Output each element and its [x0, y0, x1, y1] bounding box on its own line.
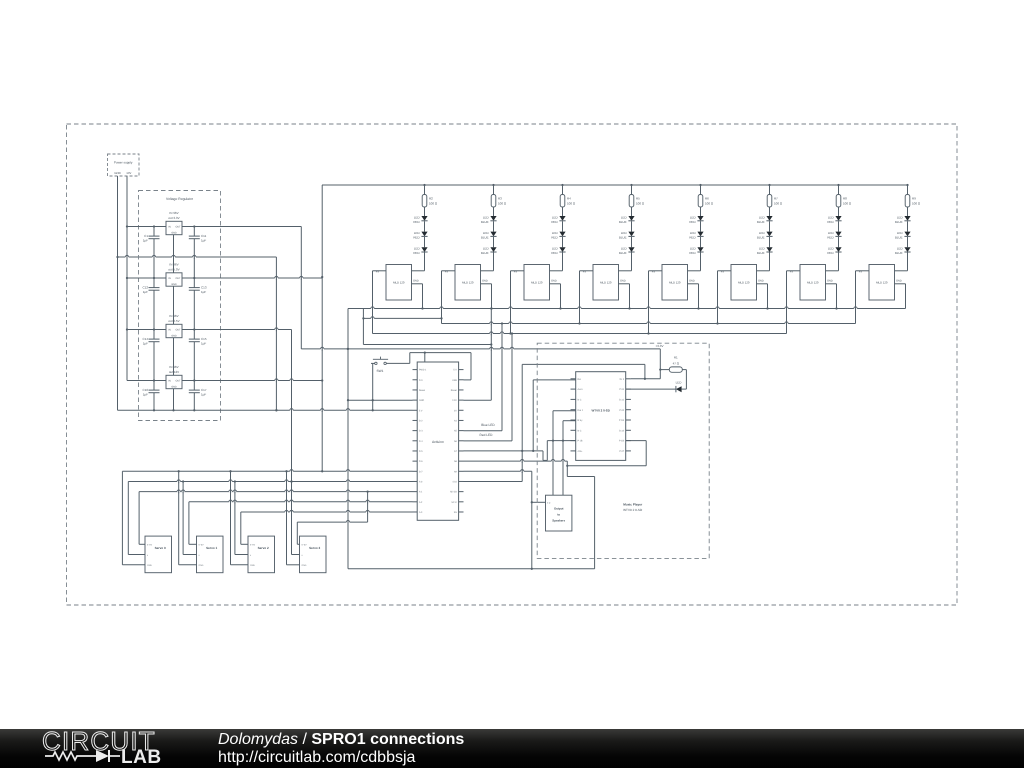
resistor R2 [423, 184, 425, 186]
svg-text:Dat 1: Dat 1 [578, 409, 584, 412]
wire GND from power supply [117, 176, 119, 410]
svg-text:C16: C16 [142, 388, 148, 392]
wire servo 3 pin3 [286, 471, 288, 565]
svg-text:+3.3V: +3.3V [656, 344, 664, 348]
wire GND driver 2 [550, 283, 561, 285]
servo bus 12V [122, 470, 412, 472]
svg-text:2V: 2V [454, 409, 457, 412]
svg-text:100 Ω: 100 Ω [912, 202, 921, 206]
wire Px driver 1 [442, 270, 456, 272]
svg-text:100 Ω: 100 Ω [705, 202, 714, 206]
LED BLUE D12 [628, 247, 634, 252]
wire regulator U3 input [127, 277, 166, 279]
wire blue control drop [501, 324, 503, 431]
svg-text:GND: GND [171, 231, 177, 234]
wire Px driver 4 [649, 270, 663, 272]
svg-text:GND: GND [896, 279, 902, 282]
wire WTV busy loop [626, 440, 647, 442]
wire output reg3 6.5V [182, 329, 292, 331]
arduino pin row 6 [413, 430, 418, 432]
svg-text:IN: IN [168, 380, 171, 383]
svg-text:GND: GND [551, 279, 557, 282]
svg-text:out 3.3V: out 3.3V [168, 216, 179, 220]
svg-text:100 Ω: 100 Ω [429, 202, 438, 206]
wire jog to arduino D2 [363, 344, 491, 346]
svg-text:IN: IN [168, 329, 171, 332]
driver chip U15 MLD 120 [731, 265, 757, 301]
wire 5V feed to LED rail [321, 185, 323, 471]
svg-text:RED: RED [413, 235, 420, 239]
arduino pin row 3 [413, 399, 418, 401]
resistor R6 [699, 184, 701, 186]
svg-text:SW1: SW1 [377, 369, 384, 373]
arduino pin row 12 [413, 491, 418, 493]
svg-text:Servo 1: Servo 1 [206, 546, 217, 550]
svg-text:USB: USB [452, 379, 457, 382]
svg-text:IN: IN [168, 277, 171, 280]
svg-text:GND: GND [620, 279, 626, 282]
svg-text:C13: C13 [201, 285, 207, 289]
arduino U1 [417, 362, 458, 520]
LED RED D19 [835, 216, 841, 221]
svg-text:4 B+: 4 B+ [578, 450, 583, 453]
svg-text:Speakers: Speakers [552, 519, 565, 523]
wire data 0 braid [464, 450, 544, 452]
driver chip U14 MLD 120 [662, 265, 688, 301]
svg-text:1μF: 1μF [201, 392, 206, 396]
svg-text:BLUE: BLUE [619, 251, 627, 255]
svg-text:R2: R2 [429, 196, 433, 200]
svg-text:1μF: 1μF [201, 290, 206, 294]
svg-text:5–6V: 5–6V [147, 543, 153, 546]
svg-text:GND: GND [199, 564, 204, 567]
svg-text:R4: R4 [567, 196, 571, 200]
wire LED chain to driver 7 [907, 252, 909, 270]
svg-text:R9: R9 [912, 196, 916, 200]
wire Px driver 2 [511, 270, 525, 272]
svg-text:GND: GND [758, 279, 764, 282]
arduino pin row 7 [413, 440, 418, 442]
LED RED D14 [697, 232, 703, 237]
wire GND driver 5 [757, 283, 768, 285]
arduino pin row 1 [413, 379, 418, 381]
LED RED D15 [697, 247, 703, 252]
servo signal bus 3 [297, 521, 367, 523]
svg-text:MLD 120: MLD 120 [807, 281, 819, 285]
resistor R3 [492, 184, 494, 186]
svg-text:WTV0 2 0-SD: WTV0 2 0-SD [591, 409, 610, 413]
wire capacitor column [153, 227, 155, 237]
wire Px driver 7 [856, 270, 870, 272]
svg-text:GND: GND [171, 385, 177, 388]
arduino pin row 4 [413, 409, 418, 411]
svg-text:GND: GND [689, 279, 695, 282]
svg-text:SC K: SC K [451, 501, 457, 504]
svg-text:5 V: 5 V [453, 369, 457, 372]
svg-text:BLUE: BLUE [481, 251, 489, 255]
svg-text:P 02: P 02 [619, 409, 624, 412]
svg-text:BLUE: BLUE [895, 220, 903, 224]
wire Px driver 5 [718, 270, 732, 272]
power supply box PS1 [108, 154, 140, 176]
svg-text:N C: N C [578, 429, 582, 432]
footer bar [0, 729, 1024, 768]
svg-text:5–6V: 5–6V [199, 543, 205, 546]
svg-text:LED: LED [552, 247, 559, 251]
LED BLUE D4 [490, 216, 496, 221]
svg-text:47 Ω: 47 Ω [673, 361, 680, 365]
LED BLUE D24 [904, 247, 910, 252]
wire capacitor column [193, 227, 195, 237]
wire 14V from power supply [126, 176, 128, 381]
svg-text:100 Ω: 100 Ω [843, 202, 852, 206]
svg-text:MLD 120: MLD 120 [462, 281, 474, 285]
resistor R4 [561, 184, 563, 186]
wire GND driver 3 [619, 283, 630, 285]
arduino pin row 8 [413, 450, 418, 452]
wire bottom loop [348, 568, 595, 570]
svg-text:Music Player: Music Player [623, 503, 643, 507]
svg-text:BLUE: BLUE [481, 235, 489, 239]
wire R1 to LED [685, 370, 687, 390]
wire servo 1 pin1 signal [188, 502, 190, 545]
wire 3.3V branch to arduino [347, 348, 349, 350]
arduino pin row 5 [413, 419, 418, 421]
LED RED D21 [835, 247, 841, 252]
wire GND bus left drop [347, 309, 349, 569]
speaker box [546, 495, 572, 531]
wire LED to WTV [626, 388, 676, 390]
LED BLUE D5 [490, 232, 496, 237]
svg-text:LED: LED [552, 215, 559, 219]
arduino pin row 2 [413, 389, 418, 391]
wire LED chain to driver 6 [838, 252, 840, 270]
servo M3 box [300, 536, 327, 573]
svg-text:Voltage Regulator: Voltage Regulator [166, 197, 194, 201]
wire regulator U2 input [127, 226, 166, 228]
wire output reg2 5V [182, 277, 322, 279]
LED BLUE D23 [904, 232, 910, 237]
LED BLUE D17 [766, 232, 772, 237]
svg-text:BLUE: BLUE [757, 235, 765, 239]
svg-text:Reset: Reset [419, 389, 425, 392]
arduino pin row 10 [413, 470, 418, 472]
wire GND driver 7 [895, 283, 906, 285]
LED RED D2 [421, 232, 427, 237]
wire red control drop [511, 334, 513, 441]
svg-text:LED: LED [828, 215, 835, 219]
wire regulator GND column [173, 235, 175, 273]
svg-text:MLD 120: MLD 120 [669, 281, 681, 285]
svg-text:OUT: OUT [175, 277, 181, 280]
svg-text:GND: GND [827, 279, 833, 282]
wire WTV p4 p5 to speaker box [552, 411, 554, 496]
WTV pin row 5 [571, 429, 576, 431]
svg-text:C15: C15 [201, 337, 207, 341]
svg-text:RED: RED [413, 220, 420, 224]
wire output row U2 [153, 225, 155, 227]
svg-text:RED: RED [827, 251, 834, 255]
svg-text:GND: GND [147, 564, 152, 567]
wire output reg4 12V [182, 380, 322, 382]
WTV pin row 7 [571, 450, 576, 452]
wire 3.3V into WTV [659, 349, 661, 379]
pushbutton SW1 [373, 358, 388, 360]
wire GND branch horizontal [118, 256, 277, 258]
svg-text:P 07: P 07 [619, 450, 624, 453]
svg-text:LED: LED [676, 380, 683, 384]
wire output reg1 3.3V [182, 226, 301, 228]
wire GND driver 6 [826, 283, 837, 285]
wire LED chain to driver 5 [769, 252, 771, 270]
svg-text:GND: GND [171, 283, 177, 286]
LED BLUE D18 [766, 247, 772, 252]
wire output row U4 [153, 328, 155, 330]
svg-text:Servo 2: Servo 2 [258, 546, 269, 550]
servo M1 box [197, 536, 224, 573]
svg-text:5–6V: 5–6V [250, 543, 256, 546]
red LED control bus [373, 333, 787, 335]
wire GND driver 4 [688, 283, 699, 285]
svg-text:to: to [557, 513, 560, 517]
wire vdd to WTV [522, 363, 645, 365]
svg-text:BLUE: BLUE [895, 235, 903, 239]
wire crossing hops [125, 256, 128, 257]
svg-text:Servo 3: Servo 3 [309, 546, 320, 550]
outer schematic dashed border [67, 124, 958, 605]
svg-text:BLUE: BLUE [895, 251, 903, 255]
wire 6.5V feed from reg3 [291, 330, 293, 555]
svg-text:OUT: OUT [175, 226, 181, 229]
svg-text:D a2: D a2 [619, 429, 625, 432]
svg-text:4 10: 4 10 [452, 481, 457, 484]
wire data 2 braid speaker [464, 470, 532, 472]
wire LED chain to driver 3 [631, 252, 633, 270]
driver chip U13 MLD 120 [593, 265, 619, 301]
wire blue LED control from arduino [464, 430, 503, 432]
svg-text:Rst: Rst [578, 378, 582, 381]
wire data to WTV reset [547, 440, 575, 442]
driver chip U10 MLD 120 [386, 265, 412, 301]
wire SW1 left to GND [371, 362, 375, 364]
svg-text:4 Ω: 4 Ω [547, 501, 551, 504]
svg-text:Arduino: Arduino [432, 440, 444, 444]
svg-text:D a1: D a1 [619, 399, 625, 402]
LED RED D13 [697, 216, 703, 221]
svg-text:RED: RED [827, 235, 834, 239]
svg-text:1μF: 1μF [143, 392, 148, 396]
svg-text:LED: LED [414, 231, 421, 235]
wire loop lower [567, 476, 594, 478]
wire servo 1 pin3 [178, 471, 180, 565]
svg-text:1μF: 1μF [201, 341, 206, 345]
svg-text:GND: GND [171, 334, 177, 337]
wire servo 0 pin1 signal [138, 492, 140, 545]
LED RED D1 [421, 216, 427, 221]
wire servo 3 pin1 signal [296, 522, 298, 544]
svg-text:100 Ω: 100 Ω [774, 202, 783, 206]
svg-text:3V 3: 3V 3 [619, 378, 624, 381]
svg-text:LED: LED [759, 247, 766, 251]
wire Px driver 0 [373, 270, 387, 272]
svg-text:1μF: 1μF [143, 238, 148, 242]
svg-text:P 1B: P 1B [619, 440, 624, 443]
svg-text:RED: RED [551, 235, 558, 239]
svg-text:GND: GND [413, 279, 419, 282]
wire SW1 right loop to arduino [386, 362, 410, 364]
svg-text:Output: Output [554, 507, 564, 511]
LED RED D8 [559, 232, 565, 237]
LED RED D3 [421, 247, 427, 252]
WTV pin row 2 [571, 398, 576, 400]
svg-text:MLD 120: MLD 120 [876, 281, 888, 285]
svg-text:LED: LED [483, 215, 490, 219]
svg-text:R6: R6 [705, 196, 709, 200]
servo signal bus 0 [139, 491, 412, 493]
GND rail horizontal [118, 409, 413, 411]
svg-text:WTV0 2 0-SD: WTV0 2 0-SD [623, 508, 643, 512]
wire jog to blue riser [362, 309, 364, 345]
svg-text:LED: LED [690, 215, 697, 219]
svg-text:OUT: OUT [175, 329, 181, 332]
svg-text:LED: LED [759, 215, 766, 219]
wire WTV reset row [533, 379, 576, 381]
svg-text:RED: RED [551, 220, 558, 224]
svg-text:P 1B: P 1B [578, 440, 583, 443]
LED BLUE D6 [490, 247, 496, 252]
wire regulator U5 input [127, 380, 166, 382]
svg-text:R7: R7 [774, 196, 778, 200]
svg-text:MLD 120: MLD 120 [600, 281, 612, 285]
LED RED D7 [559, 216, 565, 221]
servo signal bus 1 [189, 501, 413, 503]
servo M0 box [145, 536, 172, 573]
svg-text:LED: LED [897, 247, 904, 251]
svg-text:BLUE: BLUE [619, 220, 627, 224]
wire LED chain to driver 4 [700, 252, 702, 270]
music player dashed group box [537, 343, 709, 558]
wire LED chain to driver 1 [493, 252, 495, 270]
svg-text:IN 96V: IN 96V [169, 211, 178, 215]
svg-text:LED: LED [828, 247, 835, 251]
driver GND bus [348, 308, 906, 310]
svg-text:C12: C12 [142, 285, 148, 289]
WTV pin row 3 [571, 409, 576, 411]
driver chip U17 MLD 120 [869, 265, 895, 301]
wire servo 0 pin3 [121, 471, 123, 565]
svg-text:3 3V: 3 3V [452, 399, 457, 402]
LED RED D20 [835, 232, 841, 237]
svg-text:LED: LED [759, 231, 766, 235]
svg-text:100 Ω: 100 Ω [498, 202, 507, 206]
svg-text:BLUE: BLUE [757, 251, 765, 255]
wire GND branch vertical [275, 257, 277, 410]
footer text [218, 731, 464, 767]
svg-text:LED: LED [621, 247, 628, 251]
voltage regulator dashed group box [139, 191, 221, 421]
svg-text:MLD 120: MLD 120 [738, 281, 750, 285]
svg-text:OUT: OUT [175, 380, 181, 383]
svg-text:1μF: 1μF [143, 341, 148, 345]
svg-text:Servo 0: Servo 0 [155, 546, 166, 550]
svg-text:C11: C11 [201, 234, 207, 238]
svg-text:1μF: 1μF [143, 290, 148, 294]
svg-text:MLD 120: MLD 120 [393, 281, 405, 285]
svg-text:MI SO: MI SO [450, 491, 457, 494]
WTV pin row 1 [571, 388, 576, 390]
svg-text:C1: C1 [144, 234, 148, 238]
svg-text:MLD 120: MLD 120 [531, 281, 543, 285]
svg-text:R8: R8 [843, 196, 847, 200]
svg-text:LED: LED [483, 247, 490, 251]
LED BLUE D10 [628, 216, 634, 221]
svg-text:5–6V: 5–6V [302, 543, 308, 546]
svg-text:14V: 14V [126, 171, 131, 175]
svg-text:LED: LED [897, 231, 904, 235]
wire 3.3V net horizontal [301, 348, 660, 350]
svg-text:LED: LED [621, 231, 628, 235]
svg-text:BLUE: BLUE [757, 220, 765, 224]
svg-text:GND: GND [482, 279, 488, 282]
svg-text:SS: SS [454, 511, 458, 514]
WTV pin row 0 [571, 378, 576, 380]
wire GND driver 0 [412, 283, 423, 285]
wire arduino 3.3V pin [348, 399, 413, 401]
svg-text:LAB: LAB [121, 747, 162, 768]
svg-text:GND: GND [250, 564, 255, 567]
arduino pin row 0 [413, 369, 418, 371]
LED BLUE D16 [766, 216, 772, 221]
svg-text:N C: N C [578, 399, 582, 402]
svg-text:1μF: 1μF [201, 238, 206, 242]
wire Px driver 6 [787, 270, 801, 272]
wire output row U3 [153, 277, 155, 279]
wire servo 0 pin2 [127, 482, 129, 555]
wire arduino D io row to LED px bus [464, 399, 492, 401]
svg-text:Blue LED: Blue LED [481, 423, 495, 427]
svg-text:R3: R3 [498, 196, 502, 200]
resistor R7 [768, 184, 770, 186]
wire signal bus 3 riser [367, 492, 369, 522]
wire red LED control from arduino [464, 440, 513, 442]
svg-text:100 Ω: 100 Ω [636, 202, 645, 206]
svg-text:RED: RED [827, 220, 834, 224]
wire servo 2 pin2 [234, 482, 236, 555]
wire GND driver 1 [481, 283, 492, 285]
svg-text:GND: GND [114, 171, 120, 175]
svg-text:Reset: Reset [451, 389, 457, 392]
svg-text:R1: R1 [674, 356, 678, 360]
LED BLUE D22 [904, 216, 910, 221]
driver chip U16 MLD 120 [800, 265, 826, 301]
servo bus 6.5V [128, 481, 412, 483]
svg-text:RED: RED [689, 220, 696, 224]
svg-text:RED: RED [551, 251, 558, 255]
svg-text:RED: RED [689, 251, 696, 255]
wire servo 2 pin1 signal [240, 512, 242, 544]
svg-text:P 04: P 04 [619, 388, 624, 391]
wire regulator U4 input [127, 329, 166, 331]
WTV pin row 6 [571, 440, 576, 442]
WTV pin row 4 [571, 419, 576, 421]
svg-text:LED: LED [690, 247, 697, 251]
svg-text:LED: LED [690, 231, 697, 235]
wire servo 2 pin3 [230, 471, 232, 565]
resistor R8 [837, 184, 839, 186]
svg-text:LED: LED [897, 215, 904, 219]
wire output row U5 [153, 379, 155, 381]
svg-text:5 V: 5 V [419, 409, 423, 412]
